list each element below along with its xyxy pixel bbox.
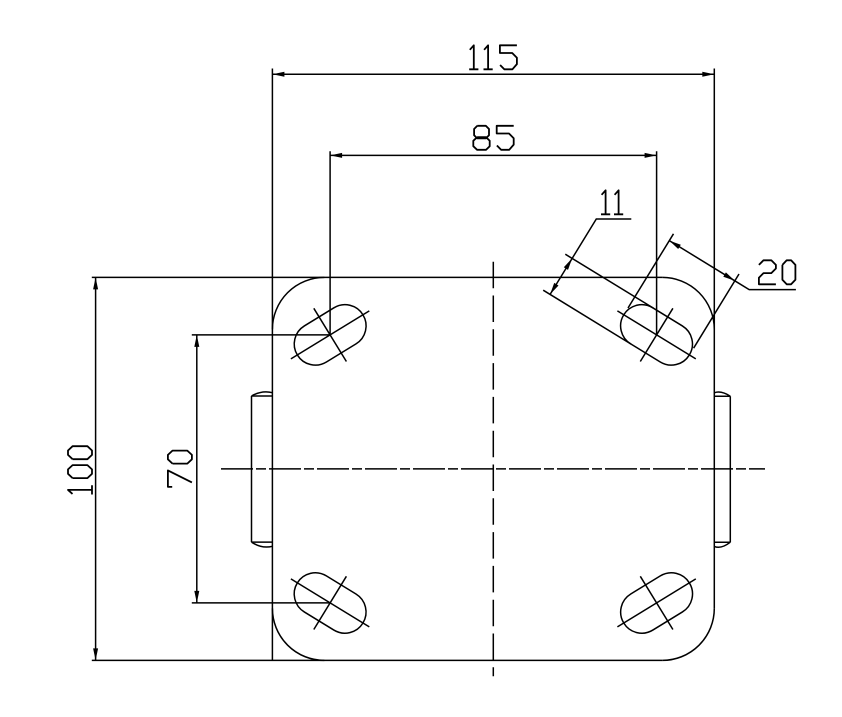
dimension 115: right arrow [702,72,714,77]
left hub tab outer edge [251,396,253,542]
dimension 85: right arrow [645,153,657,158]
slot BR (11x20 oblong hole) [613,565,701,641]
dimension 20: right extension line [694,274,739,348]
dimension 11: lower arrow [550,283,558,295]
dimension 100: dimension line [95,277,97,660]
slot TR (11x20 oblong hole) [613,297,701,373]
right hub tab bottom edge [714,541,730,543]
plate corner arc top-right [662,277,714,329]
right hub tab top wheel arc [714,392,730,396]
vertical centerline [492,262,494,677]
left hub tab top edge [252,395,273,397]
right hub tab outer edge [729,396,731,542]
dimension 70: text (rotated) [168,470,192,487]
plate left edge (with 115-dim extension line) [271,69,273,661]
dimension 20: dimension line [669,241,735,281]
slot TL perpendicular cross line [314,308,347,361]
dimension 100: text (rotated) [68,485,92,494]
dimension 70: dimension line [196,335,198,603]
plate bottom edge (with 100-dim extension line) [92,659,663,661]
dimension 11: lower extension line [543,290,631,344]
slot TL (11x20 oblong hole) [286,297,374,373]
dimension 85: right extension line [656,151,658,335]
dimension 85: text [473,126,489,150]
left hub tab bottom wheel arc [252,542,273,547]
dimension 100: bottom arrow [93,648,98,660]
dimension 115: dimension line [272,73,714,75]
dimension 20: left arrow [669,241,681,249]
left hub tab bottom edge [252,541,273,543]
dimension 11: upper extension line [565,254,653,308]
dimension 85: dimension line [330,154,656,156]
dimension 20: right arrow [723,272,735,280]
slot TR perpendicular cross line [640,308,673,361]
slot BR axis cross line [617,579,695,627]
plate right edge (with 115-dim extension line) [713,69,715,609]
dimension 115: left arrow [272,72,284,77]
dimension 11: upper arrow [564,258,572,270]
dimension 85: left arrow [330,153,342,158]
slot BL (11x20 oblong hole) [286,565,374,641]
dimension 85: left extension line [329,151,331,335]
dimension 70: bottom arrow [194,591,199,603]
slot TR axis cross line [617,311,695,359]
slot BR perpendicular cross line [640,576,673,629]
slot TL axis cross line [291,311,369,359]
plate corner arc bottom-right [662,608,714,660]
slot BL axis cross line [291,579,369,627]
plate corner arc top-left [272,277,324,329]
dimension 20: leader to text [735,281,796,290]
left hub tab top wheel arc [252,392,273,396]
horizontal centerline [221,468,765,470]
dimension 11: text [601,190,610,214]
dimension 20: text [759,260,776,284]
dimension 115: text [469,45,478,69]
plate corner arc bottom-left [272,608,324,660]
dimension 11: dimension line with leader [550,219,631,294]
plate top edge (with 100-dim extension line) [92,276,663,278]
slot BL perpendicular cross line [314,576,347,629]
dimension 20: left extension line [628,234,674,308]
right hub tab bottom wheel arc [714,542,730,547]
dimension 70: top arrow [194,335,199,347]
dimension 70: bottom extension line [192,602,330,604]
dimension 100: top arrow [93,277,98,289]
dimension 70: top extension line [192,334,330,336]
right hub tab top edge [714,395,730,397]
